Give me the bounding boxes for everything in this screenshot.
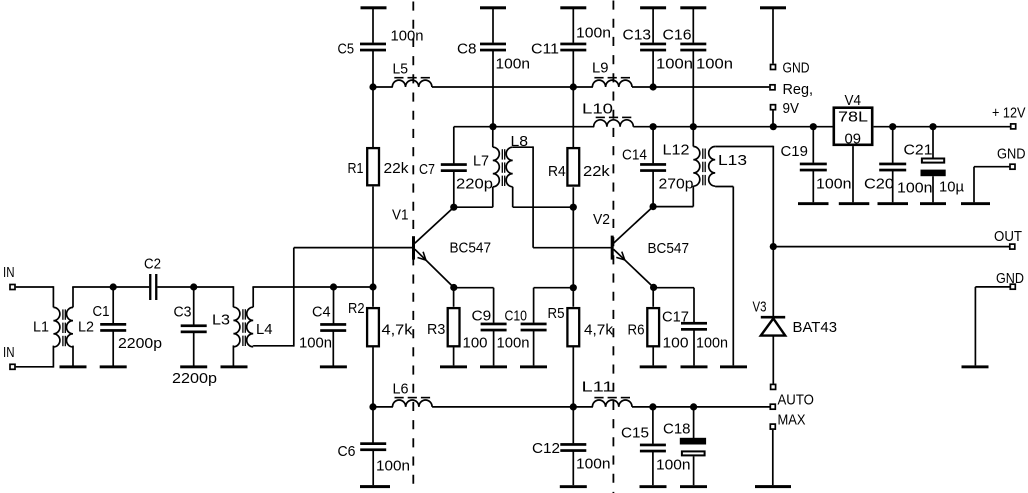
capacitor C1 <box>112 287 114 323</box>
svg-text:C21: C21 <box>904 142 933 159</box>
svg-text:MAX: MAX <box>778 412 806 429</box>
capacitor C20 <box>892 127 894 163</box>
svg-text:+ 12V: + 12V <box>992 105 1026 122</box>
svg-text:9V: 9V <box>783 100 800 117</box>
svg-text:100n: 100n <box>576 25 611 42</box>
transformer core L3/L4 <box>242 309 244 319</box>
node C5/R1 junction on Reg rail <box>369 83 376 90</box>
svg-text:BC547: BC547 <box>450 240 492 257</box>
node V1 collector junction <box>450 204 457 211</box>
svg-text:100n: 100n <box>576 456 611 473</box>
svg-text:270p: 270p <box>659 176 694 193</box>
node R2/C6 junction <box>369 403 376 410</box>
transformer core L7/L8 <box>501 149 503 159</box>
svg-text:R2: R2 <box>348 300 365 317</box>
svg-text:C2: C2 <box>144 256 161 273</box>
capacitor C7 <box>453 127 455 164</box>
svg-text:R3: R3 <box>427 321 445 338</box>
wire bottom rail left <box>373 406 393 408</box>
resistor R3 <box>453 288 455 307</box>
svg-text:100n: 100n <box>656 457 691 474</box>
node C15 junction <box>649 403 656 410</box>
node C14 junction <box>650 123 657 130</box>
capacitor C3 <box>193 287 195 325</box>
ground L2 <box>72 346 74 366</box>
svg-text:220p: 220p <box>456 175 493 192</box>
node C21 junction <box>929 123 936 130</box>
node IN terminal 1 <box>10 285 15 290</box>
wire C2 to node B <box>157 286 233 288</box>
svg-text:V3: V3 <box>753 299 767 316</box>
svg-text:BC547: BC547 <box>648 240 690 257</box>
svg-text:C18: C18 <box>663 421 691 438</box>
svg-text:C16: C16 <box>663 27 692 44</box>
wire bottom rail right <box>632 406 770 408</box>
capacitor C9 <box>481 323 507 326</box>
svg-text:C8: C8 <box>457 41 477 58</box>
svg-text:C19: C19 <box>781 143 808 160</box>
svg-text:IN: IN <box>3 264 15 281</box>
svg-text:100n: 100n <box>496 56 531 73</box>
svg-text:L7: L7 <box>473 153 489 170</box>
wire R1 top <box>372 87 374 147</box>
inductor L8 (transformer secondary) <box>506 147 512 187</box>
node C20 junction <box>889 123 896 130</box>
inductor L11 <box>592 400 632 407</box>
capacitor C12 <box>572 407 574 443</box>
node C12 junction <box>570 403 577 410</box>
wire C10 to R5 <box>534 287 574 289</box>
capacitor C11 <box>560 6 586 9</box>
wire dashed alignment line 2 <box>612 1 614 493</box>
wire OUT <box>773 246 1009 248</box>
svg-text:100n: 100n <box>897 180 933 197</box>
ground GND top right <box>974 166 1009 168</box>
capacitor C2 <box>149 274 151 300</box>
svg-text:100n: 100n <box>816 176 852 193</box>
svg-text:C5: C5 <box>338 41 355 58</box>
wire L7 bottom to C7 <box>454 206 493 208</box>
ground L3 <box>232 345 234 365</box>
regulator V4 78L09 <box>834 108 872 145</box>
svg-text:L5: L5 <box>393 61 409 78</box>
diode V3 BAT43 <box>761 316 785 319</box>
node C16/L12 junction <box>690 123 697 130</box>
svg-text:4,7k: 4,7k <box>584 322 614 339</box>
inductor L7 (transformer primary) <box>492 126 494 147</box>
node GND terminal top <box>760 6 786 9</box>
inductor L9 <box>592 80 632 87</box>
svg-text:L9: L9 <box>592 60 609 77</box>
inductor L2 (transformer secondary) <box>66 307 73 347</box>
node GND terminal bottom right <box>1010 284 1015 289</box>
svg-text:C4: C4 <box>312 304 331 321</box>
node IN terminal 2 <box>10 364 15 369</box>
wire 12V rail <box>874 126 1010 128</box>
wire R4 column <box>572 87 574 147</box>
svg-text:C6: C6 <box>338 443 356 460</box>
wire 9V rail right <box>633 126 832 128</box>
svg-text:C14: C14 <box>622 147 647 164</box>
resistor R4 <box>567 148 579 186</box>
node R1/R2 divider junction <box>369 283 376 290</box>
transformer core L1/L2 <box>62 309 64 319</box>
node C4 junction <box>330 283 337 290</box>
svg-text:2200p: 2200p <box>172 370 217 387</box>
node GND terminal top right <box>1010 164 1015 169</box>
svg-text:09: 09 <box>845 131 862 148</box>
svg-text:100: 100 <box>463 335 488 352</box>
wire R2 bottom <box>372 347 374 407</box>
svg-text:100n: 100n <box>656 56 693 73</box>
wire L4 top to bias node <box>252 287 254 307</box>
svg-text:100: 100 <box>663 335 689 352</box>
svg-text:100n: 100n <box>497 335 530 352</box>
transformer core L12/L13 <box>702 149 704 159</box>
node V2 emitter junction <box>650 284 657 291</box>
svg-text:10µ: 10µ <box>939 179 964 196</box>
inductor L3 (transformer primary) <box>233 307 240 347</box>
svg-text:100n: 100n <box>696 335 728 352</box>
inductor L10 <box>594 120 634 127</box>
capacitor C4 <box>333 287 335 324</box>
capacitor C19 <box>812 127 814 163</box>
inductor L1 (transformer primary) <box>53 307 60 347</box>
node C11 junction on Reg rail <box>570 83 577 90</box>
inductor L12 (transformer primary) <box>692 126 694 147</box>
node C19 junction <box>810 123 817 130</box>
wire L13 bottom to ground <box>714 185 716 187</box>
wire Reg rail left <box>372 86 393 88</box>
svg-text:C11: C11 <box>531 41 559 58</box>
ground MAX terminal <box>772 430 774 485</box>
svg-text:GND: GND <box>997 146 1026 163</box>
wire L12 bottom to C14 <box>653 206 693 208</box>
node AUTO terminal <box>770 404 775 409</box>
wire IN2 to L1 <box>16 366 54 368</box>
node OUT junction <box>770 243 777 250</box>
resistor R1 <box>367 148 379 185</box>
svg-text:100n: 100n <box>696 56 733 73</box>
svg-text:L13: L13 <box>718 152 747 169</box>
svg-text:C3: C3 <box>174 304 192 321</box>
capacitor C15 <box>652 407 654 444</box>
wire L8 top to V2 base <box>513 146 533 148</box>
svg-text:C15: C15 <box>621 425 649 442</box>
svg-text:R1: R1 <box>348 160 364 177</box>
wire R5 bottom <box>572 347 574 407</box>
wire R4 to R5 <box>572 187 574 306</box>
svg-text:100n: 100n <box>376 458 410 475</box>
node Reg terminal <box>770 85 775 90</box>
node C8/L7 junction <box>489 123 496 130</box>
svg-text:C12: C12 <box>532 440 560 457</box>
svg-text:C9: C9 <box>472 308 492 325</box>
svg-text:GND: GND <box>996 270 1024 287</box>
svg-text:V1: V1 <box>392 207 409 224</box>
ground V4 <box>852 146 854 202</box>
node V1 emitter junction <box>450 284 457 291</box>
wire L8 bottom to R4 <box>512 187 514 207</box>
svg-text:4,7k: 4,7k <box>382 322 414 339</box>
svg-text:L3: L3 <box>212 312 230 329</box>
capacitor C8 <box>480 6 506 9</box>
transistor V2 <box>611 236 614 260</box>
capacitor C10 <box>533 288 535 323</box>
wire L13 top to OUT node <box>715 146 773 148</box>
resistor R2 <box>367 308 379 346</box>
ground GND bottom right <box>975 286 1009 288</box>
node 9V rail junction <box>770 123 777 130</box>
svg-text:L1: L1 <box>33 319 49 336</box>
resistor R6 <box>652 287 654 306</box>
resistor R5 <box>567 308 579 346</box>
svg-text:C10: C10 <box>505 308 528 325</box>
capacitor C18 electrolytic <box>693 407 695 438</box>
inductor L4 (transformer secondary) <box>247 307 254 347</box>
svg-text:AUTO: AUTO <box>778 392 814 409</box>
svg-text:78L: 78L <box>838 109 868 126</box>
svg-text:C20: C20 <box>864 176 894 193</box>
wire emitter to C9 <box>454 287 494 289</box>
node C18 junction <box>690 403 697 410</box>
svg-text:22k: 22k <box>583 163 610 180</box>
inductor L6 <box>393 400 433 407</box>
svg-text:C7: C7 <box>419 161 435 178</box>
svg-text:R5: R5 <box>548 305 565 322</box>
node 9V terminal <box>771 105 776 110</box>
node C13 junction on Reg rail <box>650 83 657 90</box>
wire 9V rail left <box>454 126 594 128</box>
capacitor C21 electrolytic <box>932 127 934 158</box>
svg-text:100n: 100n <box>391 28 424 45</box>
wire bottom rail middle <box>432 406 593 408</box>
svg-text:R4: R4 <box>548 163 566 180</box>
capacitor C6 <box>372 407 374 443</box>
svg-text:100n: 100n <box>299 335 332 352</box>
svg-text:2200p: 2200p <box>118 335 162 352</box>
svg-text:L11: L11 <box>582 379 614 396</box>
svg-text:V2: V2 <box>593 211 610 228</box>
svg-text:Reg,: Reg, <box>783 81 814 98</box>
svg-text:C13: C13 <box>623 27 652 44</box>
svg-text:BAT43: BAT43 <box>793 319 838 336</box>
node R5 junction <box>570 284 577 291</box>
svg-text:L12: L12 <box>663 142 690 159</box>
capacitor C17 <box>654 287 694 289</box>
inductor L5 <box>392 80 432 87</box>
svg-text:C17: C17 <box>662 309 689 326</box>
capacitor C13 <box>640 6 666 9</box>
wire L4 bottom to V1 base <box>252 344 254 347</box>
svg-text:OUT: OUT <box>994 228 1022 245</box>
svg-text:V4: V4 <box>845 92 862 109</box>
wire R1 to R2 <box>372 187 374 307</box>
svg-text:R6: R6 <box>628 322 645 339</box>
capacitor C14 <box>652 127 654 164</box>
capacitor C16 <box>680 6 706 9</box>
node MAX terminal <box>770 424 775 429</box>
svg-text:L4: L4 <box>256 321 273 338</box>
node B junction <box>190 283 197 290</box>
node R4/L8 junction <box>570 204 577 211</box>
svg-text:22k: 22k <box>384 160 410 177</box>
svg-text:L2: L2 <box>78 319 94 336</box>
wire node B to L3 <box>232 286 234 307</box>
node OUT terminal <box>1010 244 1015 249</box>
inductor L13 (transformer secondary) <box>709 147 715 187</box>
node +12V terminal <box>1011 124 1016 129</box>
capacitor C5 <box>361 6 387 9</box>
svg-text:L6: L6 <box>393 381 409 398</box>
svg-text:L10: L10 <box>582 101 613 118</box>
wire dashed alignment line 1 <box>412 2 414 492</box>
wire Reg rail middle <box>432 86 593 88</box>
node V2 collector junction <box>650 203 657 210</box>
node A junction <box>110 283 117 290</box>
wire IN1 to L1 <box>16 286 54 288</box>
transistor V1 <box>412 236 415 259</box>
wire L2 top to node A <box>72 287 74 307</box>
wire Reg rail right <box>632 86 769 88</box>
svg-text:GND: GND <box>783 60 810 77</box>
node V3 terminal <box>771 384 776 389</box>
svg-text:C1: C1 <box>93 303 110 320</box>
svg-text:IN: IN <box>3 344 15 361</box>
